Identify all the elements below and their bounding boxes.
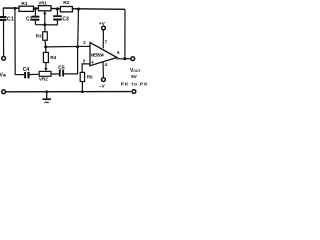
svg-text:VR2: VR2 <box>39 77 48 82</box>
capacitor C3 <box>53 9 69 25</box>
svg-text:7: 7 <box>105 40 108 45</box>
svg-text:–V: –V <box>99 83 106 89</box>
potentiometer VR2 <box>39 71 51 81</box>
node junction rail-pin2 <box>77 8 80 11</box>
potentiometer VR1 <box>38 1 51 11</box>
pin 3 lead wire <box>82 64 90 73</box>
svg-text:4: 4 <box>105 62 108 67</box>
capacitor C1 <box>0 16 14 23</box>
node junction wiper-middle line <box>43 23 46 26</box>
wire bottom ground rail <box>6 91 131 93</box>
svg-text:PK to PK: PK to PK <box>121 82 149 88</box>
svg-text:VIN: VIN <box>0 72 7 78</box>
node junction rail-C2 <box>34 7 37 10</box>
resistor R2 <box>60 0 72 12</box>
wire VR1 wiper with arrow <box>43 11 46 25</box>
svg-text:R1: R1 <box>21 1 27 7</box>
svg-text:C1: C1 <box>7 17 14 23</box>
node junction rail-C4 branch <box>13 7 16 10</box>
svg-text:6V: 6V <box>131 74 138 79</box>
wire rail junction down to pin2 node <box>77 9 80 47</box>
resistor R1 <box>19 1 34 11</box>
node junction R3-R4 <box>44 45 47 48</box>
node ground terminal right <box>132 90 136 94</box>
svg-text:VR1: VR1 <box>38 1 47 6</box>
wire middle line C2-C3 <box>35 24 57 26</box>
svg-text:2: 2 <box>83 40 86 45</box>
resistor R4 <box>43 47 56 63</box>
capacitor C5 <box>58 65 65 76</box>
wire from rail down to C4 <box>15 8 24 74</box>
pin 6 output wire <box>117 58 131 60</box>
wire top rail <box>3 8 125 9</box>
wire feedback vertical to top rail <box>124 9 126 59</box>
wire C5 right up to inverting node <box>64 47 78 74</box>
wire VR2 to C5 <box>51 73 59 75</box>
svg-text:R4: R4 <box>50 55 56 61</box>
svg-text:VOUT: VOUT <box>130 68 141 74</box>
wire C1 to Vin terminal <box>3 21 5 56</box>
svg-text:R3: R3 <box>36 33 42 39</box>
svg-text:C3: C3 <box>62 16 69 22</box>
svg-text:R5: R5 <box>87 74 93 79</box>
ground symbol <box>43 90 52 102</box>
svg-text:C2: C2 <box>26 16 33 22</box>
node ground terminal left <box>2 90 6 94</box>
svg-text:C4: C4 <box>23 67 30 73</box>
resistor R3 <box>36 25 48 47</box>
wire C4 to VR2 <box>30 73 40 75</box>
node Vin terminal <box>2 56 6 60</box>
node Vout terminal <box>131 57 135 61</box>
op-amp U1 body <box>90 43 117 66</box>
node +V terminal <box>102 26 106 30</box>
node junction R5-ground rail <box>81 90 84 93</box>
svg-text:+V: +V <box>99 21 106 27</box>
capacitor C2 <box>26 9 39 25</box>
node -V terminal <box>102 78 106 82</box>
svg-text:NE5534: NE5534 <box>91 52 105 57</box>
wire left branch down to C1 <box>2 8 4 16</box>
pin 4 wire to -V <box>102 61 104 77</box>
node junction output-feedback <box>123 57 126 60</box>
node junction feedback on pin2 line <box>76 45 79 48</box>
svg-text:R2: R2 <box>63 0 69 6</box>
capacitor C4 <box>23 67 30 79</box>
svg-text:6: 6 <box>117 50 120 55</box>
wire pin2 node line <box>46 45 90 48</box>
svg-text:C5: C5 <box>58 65 65 71</box>
resistor R5 <box>80 72 93 91</box>
svg-text:+: + <box>91 60 94 66</box>
wire R4 to VR2 wiper with arrow <box>44 63 47 72</box>
svg-text:3: 3 <box>83 59 86 64</box>
node junction rail-C3 <box>56 7 59 10</box>
pin 7 wire to +V <box>102 30 104 48</box>
